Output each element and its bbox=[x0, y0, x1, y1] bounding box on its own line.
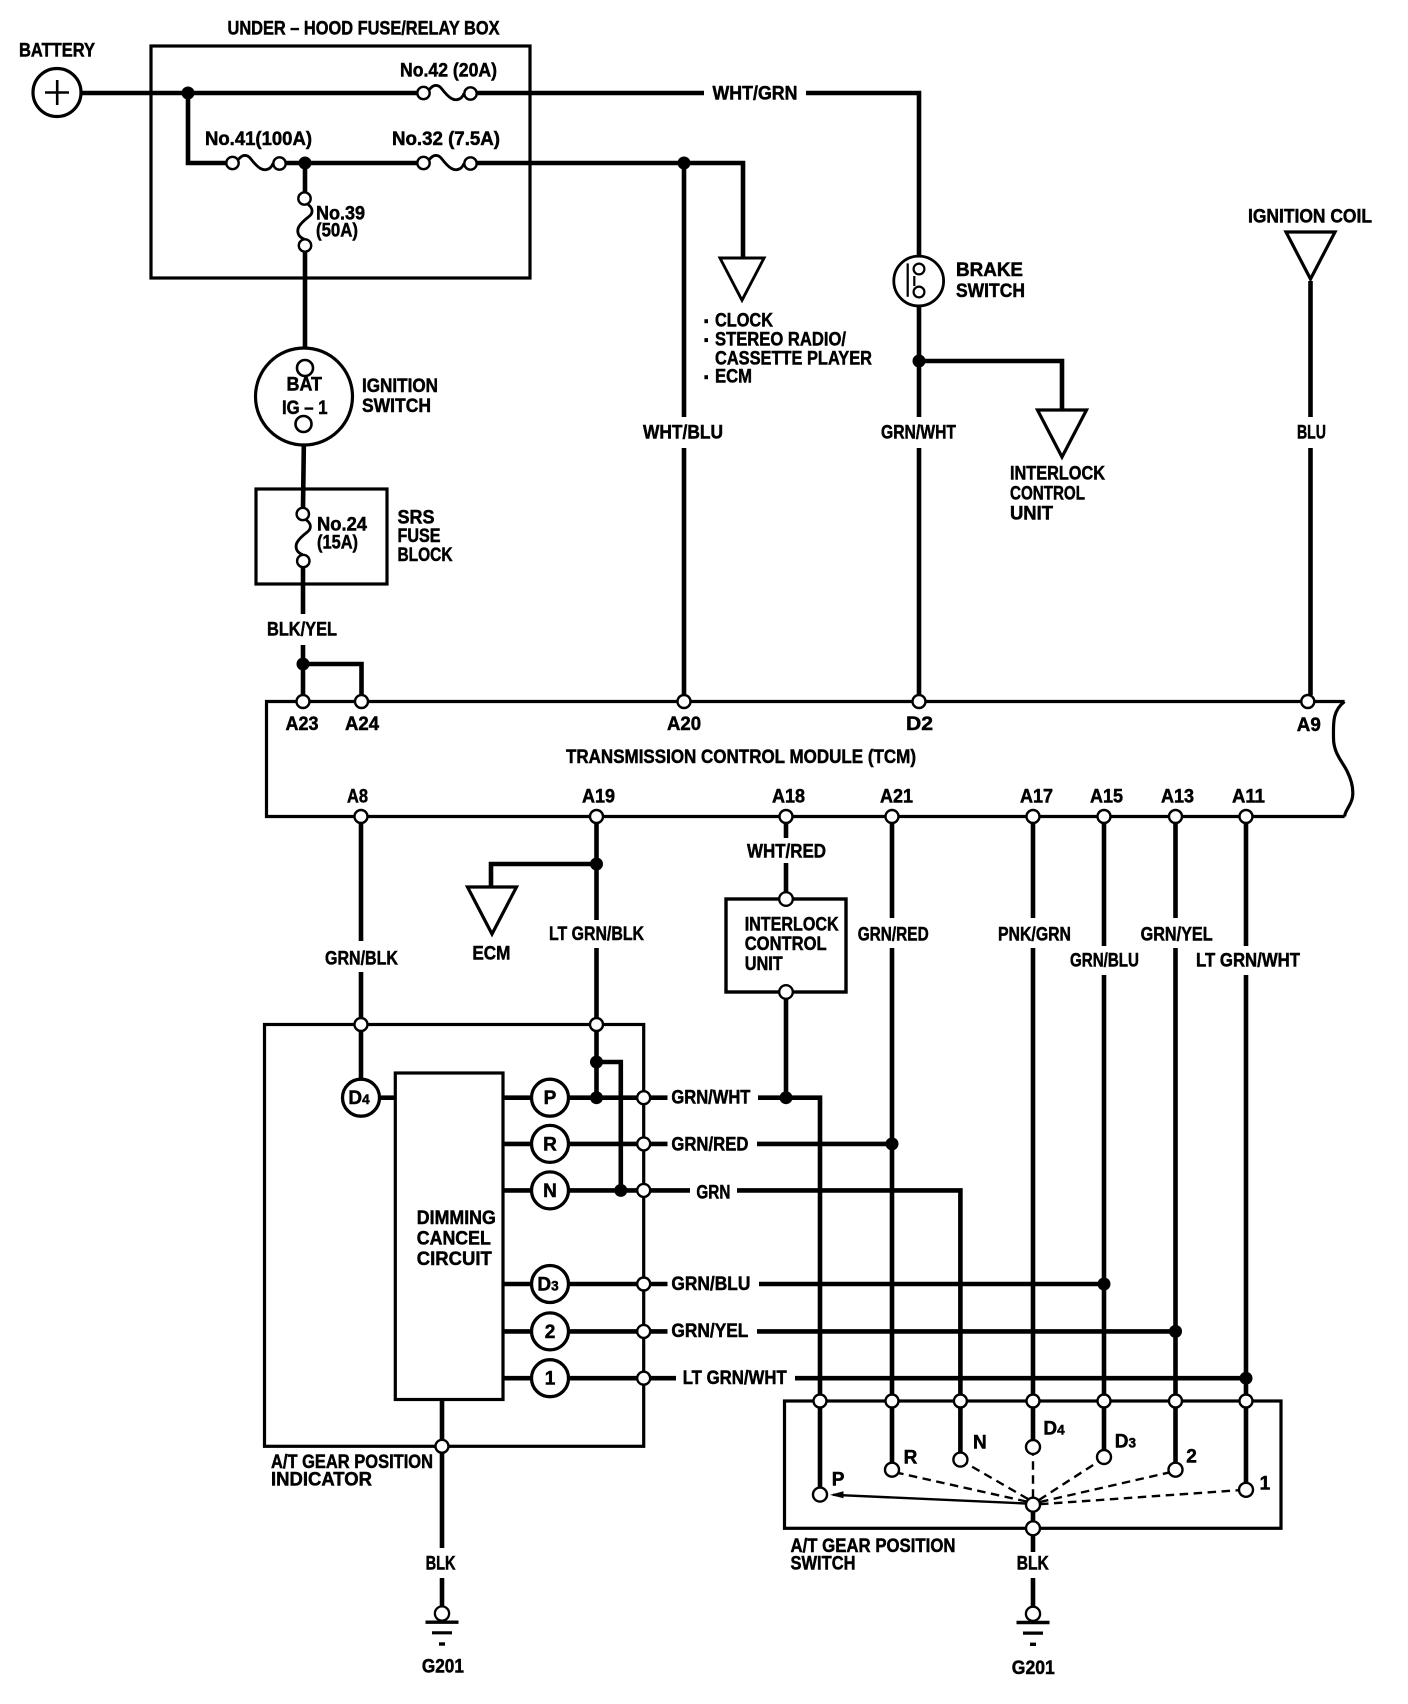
svg-text:ECM: ECM bbox=[472, 944, 510, 965]
svg-text:IGNITION: IGNITION bbox=[362, 376, 438, 397]
svg-text:P: P bbox=[544, 1088, 557, 1109]
svg-text:STEREO RADIO/: STEREO RADIO/ bbox=[715, 330, 847, 351]
svg-text:A11: A11 bbox=[1232, 787, 1265, 808]
svg-text:GRN/RED: GRN/RED bbox=[858, 925, 929, 946]
svg-text:CONTROL: CONTROL bbox=[1010, 484, 1085, 505]
svg-text:SWITCH: SWITCH bbox=[362, 396, 431, 417]
svg-text:CIRCUIT: CIRCUIT bbox=[417, 1249, 492, 1270]
svg-text:WHT/RED: WHT/RED bbox=[747, 842, 826, 863]
svg-text:GRN/BLU: GRN/BLU bbox=[1070, 951, 1139, 972]
svg-text:A15: A15 bbox=[1090, 787, 1123, 808]
svg-text:R: R bbox=[543, 1134, 557, 1155]
svg-text:SWITCH: SWITCH bbox=[956, 281, 1025, 302]
svg-text:A23: A23 bbox=[286, 714, 319, 735]
svg-text:GRN/WHT: GRN/WHT bbox=[881, 423, 956, 444]
svg-text:BLOCK: BLOCK bbox=[398, 545, 453, 566]
svg-text:N: N bbox=[543, 1181, 557, 1202]
svg-text:ECM: ECM bbox=[715, 367, 752, 388]
svg-text:BLK/YEL: BLK/YEL bbox=[267, 620, 337, 641]
svg-text:SWITCH: SWITCH bbox=[791, 1554, 856, 1575]
svg-text:BLK: BLK bbox=[1017, 1554, 1049, 1575]
svg-text:D4: D4 bbox=[348, 1088, 370, 1109]
svg-text:IGNITION COIL: IGNITION COIL bbox=[1248, 207, 1372, 228]
svg-text:LT GRN/WHT: LT GRN/WHT bbox=[683, 1368, 787, 1389]
svg-text:D2: D2 bbox=[906, 714, 933, 735]
svg-text:2: 2 bbox=[545, 1322, 556, 1343]
svg-text:CONTROL: CONTROL bbox=[745, 934, 827, 955]
svg-text:GRN/YEL: GRN/YEL bbox=[671, 1321, 748, 1342]
svg-text:2: 2 bbox=[1186, 1447, 1197, 1468]
svg-text:GRN: GRN bbox=[696, 1183, 730, 1204]
svg-text:A21: A21 bbox=[880, 787, 913, 808]
svg-text:A8: A8 bbox=[347, 787, 368, 808]
svg-text:GRN/BLK: GRN/BLK bbox=[325, 949, 398, 970]
svg-text:BLK: BLK bbox=[426, 1554, 456, 1575]
svg-text:1: 1 bbox=[1260, 1474, 1271, 1495]
svg-text:UNIT: UNIT bbox=[1010, 504, 1053, 525]
svg-text:A24: A24 bbox=[345, 714, 379, 735]
svg-text:D3: D3 bbox=[537, 1275, 559, 1296]
svg-text:A9: A9 bbox=[1297, 715, 1321, 736]
svg-text:D3: D3 bbox=[1115, 1432, 1137, 1453]
svg-text:N: N bbox=[973, 1433, 987, 1454]
svg-text:GRN/YEL: GRN/YEL bbox=[1141, 925, 1213, 946]
svg-text:CANCEL: CANCEL bbox=[417, 1229, 491, 1250]
svg-text:R: R bbox=[904, 1448, 918, 1469]
svg-text:GRN/RED: GRN/RED bbox=[671, 1135, 748, 1156]
svg-text:P: P bbox=[832, 1470, 845, 1491]
svg-text:TRANSMISSION CONTROL MODULE (T: TRANSMISSION CONTROL MODULE (TCM) bbox=[566, 747, 916, 768]
svg-text:D4: D4 bbox=[1043, 1419, 1065, 1440]
svg-text:BLU: BLU bbox=[1297, 423, 1326, 444]
svg-text:PNK/GRN: PNK/GRN bbox=[998, 925, 1071, 946]
svg-text:GRN/WHT: GRN/WHT bbox=[671, 1088, 750, 1109]
svg-text:DIMMING: DIMMING bbox=[417, 1208, 496, 1229]
svg-text:No.32 (7.5A): No.32 (7.5A) bbox=[392, 129, 500, 150]
svg-text:A19: A19 bbox=[582, 787, 615, 808]
svg-text:UNDER – HOOD FUSE/RELAY BOX: UNDER – HOOD FUSE/RELAY BOX bbox=[228, 19, 500, 40]
svg-text:A18: A18 bbox=[772, 787, 805, 808]
svg-text:WHT/GRN: WHT/GRN bbox=[713, 84, 798, 105]
svg-text:A13: A13 bbox=[1161, 787, 1194, 808]
svg-text:BRAKE: BRAKE bbox=[956, 260, 1023, 281]
svg-text:CLOCK: CLOCK bbox=[715, 311, 773, 332]
svg-text:GRN/BLU: GRN/BLU bbox=[671, 1274, 750, 1295]
svg-text:WHT/BLU: WHT/BLU bbox=[643, 423, 723, 444]
svg-text:FUSE: FUSE bbox=[398, 526, 441, 547]
svg-text:(15A): (15A) bbox=[317, 533, 358, 554]
svg-text:IG – 1: IG – 1 bbox=[282, 398, 328, 419]
svg-text:BAT: BAT bbox=[287, 375, 323, 396]
svg-text:INDICATOR: INDICATOR bbox=[271, 1470, 372, 1491]
svg-text:LT GRN/WHT: LT GRN/WHT bbox=[1196, 951, 1300, 972]
svg-text:LT GRN/BLK: LT GRN/BLK bbox=[549, 924, 644, 945]
svg-text:A20: A20 bbox=[667, 714, 701, 735]
svg-text:No.42 (20A): No.42 (20A) bbox=[400, 61, 497, 82]
svg-text:No.41(100A): No.41(100A) bbox=[205, 129, 312, 150]
svg-text:(50A): (50A) bbox=[316, 221, 358, 242]
svg-text:G201: G201 bbox=[1012, 1658, 1055, 1679]
svg-text:A17: A17 bbox=[1020, 787, 1053, 808]
svg-text:1: 1 bbox=[545, 1369, 556, 1390]
svg-text:BATTERY: BATTERY bbox=[19, 41, 95, 62]
svg-text:INTERLOCK: INTERLOCK bbox=[745, 915, 839, 936]
svg-text:INTERLOCK: INTERLOCK bbox=[1010, 464, 1105, 485]
svg-text:G201: G201 bbox=[422, 1657, 464, 1678]
svg-text:UNIT: UNIT bbox=[745, 954, 783, 975]
